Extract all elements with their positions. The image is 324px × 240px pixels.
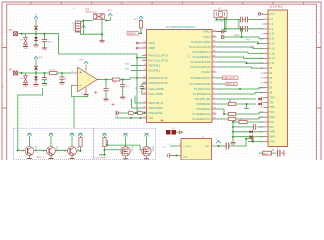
diode D6 [35,73,37,76]
wire net AN0 [131,65,143,67]
pin U2 names [183,146,210,159]
pin SV1.23 RST [264,121,269,123]
junction [135,112,137,114]
wire net RTC [217,99,264,104]
svg-text:VCC: VCC [269,13,274,16]
svg-text:P0.0/U1C1.DX0A: P0.0/U1C1.DX0A [191,41,210,44]
svg-text:P1.3/MOSI/CC8: P1.3/MOSI/CC8 [193,93,211,96]
wire net U2 gnd [172,155,177,157]
wire net VDD vertical [136,58,138,113]
pin SV1.19 TDI [264,101,269,103]
svg-text:AIN: AIN [9,69,13,72]
svg-text:P0.4/A3/U1C0.DX: P0.4/A3/U1C0.DX [191,61,211,64]
svg-text:12.000MHz: 12.000MHz [214,21,225,23]
ground Q3 [70,158,75,160]
capacitor C15 [226,143,229,150]
svg-text:TMS/SWDIO: TMS/SWDIO [196,103,210,106]
svg-text:TDI: TDI [269,101,273,104]
supply +3V3 U2 [216,141,220,144]
svg-text:VIN: VIN [9,30,13,32]
junction [176,155,178,157]
comment box relay drivers [94,128,156,159]
supply +3V3 op-amp [84,61,88,64]
wire net U2 in [170,145,177,147]
wire net drain M2 [146,136,148,146]
svg-text:1k: 1k [138,110,140,112]
pin SV1.1 VCC [264,13,269,15]
supply +5V M1 [123,134,127,137]
svg-text:GND: GND [42,49,47,51]
resistor R11 [138,112,143,115]
wire net feedback [72,85,88,96]
wire net pin27 [248,141,264,143]
microcontroller U1 [147,30,213,123]
pin SV1.12 3A [264,67,269,69]
wire net IO5 [217,67,264,68]
wire net HIB0 [135,96,142,104]
svg-text:GND: GND [269,116,275,119]
pin SV1.15 31 [264,82,269,84]
svg-text:LED1..3: LED1..3 [36,157,45,159]
svg-text:VSSA/AGND: VSSA/AGND [148,112,162,115]
junction [223,113,225,115]
ferrite FB2 [221,36,224,39]
pin V+ [85,64,87,71]
capacitor C3 [61,73,63,77]
ground M2 [144,158,149,160]
svg-text:X2 EXT-BUS: X2 EXT-BUS [270,7,284,9]
resistor R5 [217,103,229,105]
junction [239,88,241,90]
svg-text:TCK: TCK [269,111,274,114]
ground right [281,150,284,155]
transistor M2 [142,147,151,156]
resistor R2 [112,78,120,81]
resistor R7 [217,118,229,120]
junction [80,150,82,152]
pin SV1.2 1.8 [264,18,269,20]
pin U1.99 P0.3/A4/ERU0.3 [212,56,217,58]
pin U1.96 P0.0/U1C1.DX0A [212,41,217,43]
wire net IO3 [217,57,264,58]
svg-text:+5: +5 [80,23,82,25]
wire net IO4 [217,62,264,63]
ground [23,85,28,88]
connector pin X1-1 VIN [14,32,18,36]
junction [232,121,234,123]
pin U1.94 XTAL1 [212,31,217,33]
wire net emitter Q3 [71,156,73,159]
svg-text:GND: GND [23,48,28,50]
wire net VIN5 fuse [81,21,84,34]
svg-text:LM1117-3.3: LM1117-3.3 [85,12,97,14]
junction [21,33,23,35]
pin SV1.25 SWD [264,131,269,133]
resistor R8 [80,136,82,138]
svg-text:C.5: C.5 [269,28,274,31]
wire net R17 [259,152,277,154]
ground op-amp [83,94,88,97]
svg-text:1n: 1n [65,79,67,81]
wire net IO2 [217,52,264,53]
svg-text:GND: GND [34,46,39,48]
svg-text:RXD: RXD [250,47,255,49]
svg-text:+3V3: +3V3 [38,57,42,59]
no-connect marker pin 53 [136,47,142,49]
pin U1.8 XTAL/RTC_BN [212,98,217,100]
pin U1.24 VBAT/HIB_IO [142,102,147,104]
pin U1.14 AN3/P40.3/OUTB [142,82,147,84]
pin SV1.6 B.12 [264,38,269,40]
svg-text:P0.5/A2/U1C0.DO: P0.5/A2/U1C0.DO [190,66,210,69]
wire net VSS row [115,117,142,119]
svg-text:3A: 3A [269,67,272,70]
pin SV1.13 34 [264,72,269,74]
svg-text:BC817: BC817 [56,146,58,153]
pin U1.52 VDD5 [142,42,147,44]
wire net cap rail [238,19,240,28]
junction [105,19,107,21]
capacitor C5 [240,17,242,23]
svg-text:OUT_PWM: OUT_PWM [95,157,106,159]
terminal TP1 [116,110,119,115]
connector SV1 [268,10,288,147]
svg-text:VDD5: VDD5 [148,42,155,45]
resistor R10 [128,112,133,115]
svg-text:TDO: TDO [269,96,274,99]
pin U1.7 P1.3/MOSI/CC8 [212,93,217,95]
wire net RTCX2 [133,112,137,114]
wire net XTAL2 [221,18,242,37]
pin SV1.26 SWO [264,136,269,138]
pin U1.4 P1.0/ERU1/OUT1 [212,77,217,79]
supply +5V Q2 [49,133,53,136]
terminal circle J5 [258,13,261,16]
pin wire XTAL1 [217,31,222,33]
pin SV1.21 TCK [264,111,269,113]
junction [144,112,146,114]
wire net OPOUT [97,78,146,80]
junction [105,79,107,81]
wire net pin25 [253,131,264,133]
ground [99,41,104,44]
wire net emitter Q1 [29,156,31,159]
supply +5V Q3 [70,133,74,136]
junction [107,144,109,146]
wire net IO1 [217,47,264,49]
svg-text:ub: ub [116,116,118,118]
ground Q1 [27,158,32,160]
pin +IN [73,72,77,74]
svg-text:P1.0/ERU1/OUT1: P1.0/ERU1/OUT1 [191,77,211,80]
svg-text:IRLML: IRLML [131,146,133,153]
junction [140,32,142,34]
ground [33,45,38,48]
supply +5V R8 [78,133,82,136]
wire net aux rail [232,122,234,143]
capacitor C2 [44,73,46,77]
svg-text:IRLML: IRLML [152,146,154,153]
wire net VCC pin1 [261,13,264,15]
pin U1.53 VDDP [142,47,147,49]
pin U1.95 XTAL2 [212,36,217,38]
svg-text:P0.1/U1C1.DOUT0: P0.1/U1C1.DOUT0 [189,46,211,49]
wire net SCL [217,88,264,89]
wire net gate M1 [105,149,121,151]
capacitor C7 [122,80,124,85]
ground [103,99,108,102]
capacitor C6B [245,26,247,32]
junction [218,145,220,147]
capacitor C14 [278,150,280,157]
wire net source M2 [146,156,148,158]
diode D8 [259,103,262,106]
wire net drain M1 [125,136,127,146]
pad U3 [166,130,176,135]
ground U2 [168,153,173,158]
svg-text:ua_REF: ua_REF [183,146,192,148]
svg-text:IC1 XMC4500-F100K1024: IC1 XMC4500-F100K1024 [166,26,196,29]
pin SV1.27 GND [264,141,269,143]
pin SV1.8 R.18 [264,48,269,50]
svg-text:B.13: B.13 [269,43,275,46]
svg-text:P1.5/LED/CCU1: P1.5/LED/CCU1 [193,118,211,121]
wire net collector Q1 [29,136,31,146]
svg-text:P1.2/SCL/CC4: P1.2/SCL/CC4 [194,88,211,91]
junction [241,28,243,30]
ground [120,97,125,100]
junction [21,72,23,74]
wire net AN1 [131,70,143,72]
crystal Q1 [214,10,227,18]
wire net RTCX [119,112,129,114]
junction [130,117,132,119]
svg-text:TCK/SWCLK: TCK/SWCLK [196,108,211,111]
svg-text:R1 1k: R1 1k [50,69,56,71]
svg-text:P40.7/CLK_RTCB: P40.7/CLK_RTCB [148,59,168,62]
svg-text:0.10: 0.10 [269,33,274,36]
svg-text:4: 4 [216,139,217,141]
resistor R9 [104,136,106,138]
svg-text:VSS: VSS [148,117,153,120]
capacitor C1 [44,34,46,39]
ground [23,47,28,50]
voltage regulator IC2 [94,14,105,20]
pin SV1.3 C.6 [264,23,269,25]
supply +5V R9 [102,134,106,137]
junction [104,149,106,151]
pin U1.6 P1.2/SCL/CC4 [212,88,217,90]
no-connect marker pin 52 [136,42,142,44]
supply +5V Q1 [27,133,31,136]
wire net to LED block [73,97,75,128]
transistor Q1 [25,147,34,156]
marker cross2 [112,103,115,106]
svg-text:PORST: PORST [128,33,137,35]
capacitor C6 [240,26,242,32]
wire net pin24b [257,126,264,128]
pin U1.20 P1.5/LED/CCU1 [212,118,217,120]
wire net VIN5 [18,34,147,58]
svg-text:C.6: C.6 [269,23,274,26]
svg-text:P1.1/SDA/SCL/MO: P1.1/SDA/SCL/MO [190,83,211,86]
svg-text:GND: GND [121,99,126,101]
svg-text:v+: v+ [84,72,86,74]
pin U1.25 VDDC/CORE [142,107,147,109]
svg-text:3B: 3B [269,92,272,95]
pin U2.1 [177,145,182,147]
svg-text:SWD: SWD [269,131,275,134]
svg-text:XTAL1: XTAL1 [203,30,211,33]
pin SV1.7 B.13 [264,43,269,45]
pin SV1.24 5V0 [264,126,269,128]
svg-text:VDDC/CORE: VDDC/CORE [148,107,163,110]
svg-text:1.1B: 1.1B [269,52,274,55]
svg-text:SWO: SWO [269,136,275,139]
marker cross3 [161,119,164,122]
wire net AIN2 [57,72,73,74]
supply VIN label [81,25,85,28]
junction [216,18,218,20]
pin U1.15 CAP1+/VDDB [142,88,147,90]
diode D3 [35,34,37,37]
svg-text:R.18: R.18 [269,47,275,50]
pin SV1.9 1.1B [264,52,269,54]
resistor R6 [224,113,228,115]
svg-text:2: 2 [169,144,170,146]
pin U1.16 CAP1-/VSSB [142,93,147,95]
wire net HIB1 [132,99,143,109]
pin -IN [73,84,77,86]
svg-text:GND: GND [104,101,109,103]
svg-text:10n: 10n [126,86,129,88]
svg-text:P0.3/A4/ERU0.3: P0.3/A4/ERU0.3 [192,56,211,59]
wire net base bus [18,149,68,151]
pin U1.2 P0.5/A2/U1C0.DO [212,66,217,68]
wire net C6 link [243,28,264,30]
diode D9 [233,131,249,133]
pin SV1.18 TDO [264,97,269,99]
connector pin X1-2 AIN [14,71,18,75]
wire net collector Q3 [71,136,73,146]
ferrite FB1 [221,30,226,33]
svg-text:P1.4/LED/CCU0: P1.4/LED/CCU0 [193,113,211,116]
svg-text:BC817: BC817 [34,146,36,153]
pin SV1.22 GND [264,116,269,118]
svg-text:BSP: BSP [205,146,210,148]
pin SV1.16 35 [264,87,269,89]
wire net IO0 [217,42,264,44]
pin U1.5 P1.1/SDA/SCL/MO [212,83,217,85]
svg-text:LED_OUT1: LED_OUT1 [224,78,237,80]
pin SV1.20 TMS [264,106,269,108]
pin SV1.11 1.10 [264,62,269,64]
svg-text:CAP1+/VDDB: CAP1+/VDDB [148,88,164,91]
supply +5V M2 [144,134,148,137]
wire net pad [176,131,180,133]
net label P1.0 [217,77,223,79]
net label P1.1 [217,83,227,85]
svg-text:+3V3: +3V3 [107,10,113,12]
diode D4 [25,73,27,76]
svg-text:VDDP: VDDP [148,47,155,50]
svg-text:TMS: TMS [269,106,275,109]
svg-text:P0.6/A1: P0.6/A1 [202,71,211,74]
supply +3V3 clamp [34,56,38,59]
pin U1.98 P0.2/A5/ERU0.2 [212,51,217,53]
transistor M1 [121,147,130,156]
capacitor C4 [105,80,107,89]
diode D7 [259,98,262,101]
pin U1.9 P40.6/CLK_RTCA [142,55,147,57]
supply +5V [34,14,39,18]
svg-text:1.8: 1.8 [269,18,273,21]
svg-text:RST: RST [269,121,274,124]
wire net collector Q2 [50,136,52,146]
supply +3V3 [108,13,112,16]
supply +3V3 R3 [139,16,143,19]
pin U1.27 VSS [142,117,147,119]
wire net XTAL1 [217,18,240,32]
ic U2 [181,139,212,161]
svg-text:CAP: CAP [183,156,188,159]
svg-text:AN0/P40.0: AN0/P40.0 [148,64,160,67]
svg-text:P0.2/A5/ERU0.2: P0.2/A5/ERU0.2 [192,51,211,54]
wire net reg input [84,20,103,34]
junction [257,43,259,45]
wire net reg gnd [101,20,103,41]
pin SV1.5 0.10 [264,33,269,35]
diode D1 [25,34,27,38]
diode D5 [35,59,37,65]
wire net source M1 [125,156,127,158]
marker cross [94,91,97,94]
pin U2.5 [212,145,217,147]
svg-text:P40.6/CLK_RTCA: P40.6/CLK_RTCA [148,54,168,57]
wire net pin26 [253,136,264,138]
diode D10 [233,136,249,138]
svg-text:GND: GND [60,84,65,86]
ground pad [180,131,183,134]
pin SV1.10 E.Y6 [264,57,269,59]
diode D2 [35,19,37,25]
wire net VDD33 out [105,17,111,21]
wire net pin24 [233,126,253,128]
wire net AIN [18,72,50,74]
svg-text:1k: 1k [129,110,131,112]
pin U1.97 P0.1/U1C1.DOUT0 [212,46,217,48]
wire net gate feed [107,140,109,145]
wire net U2 out [216,139,252,146]
wire net C5 link [243,18,264,20]
svg-text:500mA: 500mA [72,25,75,32]
svg-text:CAP1-/VSSB: CAP1-/VSSB [148,93,163,96]
svg-text:GND: GND [42,85,47,87]
svg-text:E.Y6: E.Y6 [269,57,275,60]
pin U1.26 VSSA/AGND [142,112,147,114]
ground Q2 [49,158,54,160]
wire net gate M2 [108,145,142,150]
capacitor C8 [140,87,144,89]
pin SV1.17 3B [264,92,269,94]
pin U1.12 AN1/P40.1 [142,70,147,72]
op-amp U4 [78,67,98,92]
svg-text:VBAT/HIB_IO: VBAT/HIB_IO [148,102,163,105]
svg-text:5V0: 5V0 [269,126,274,129]
pin U1.10 P40.7/CLK_RTCB [142,60,147,62]
svg-text:XTAL2: XTAL2 [233,34,240,37]
pin U1.1 P0.4/A3/U1C0.DX [212,61,217,63]
